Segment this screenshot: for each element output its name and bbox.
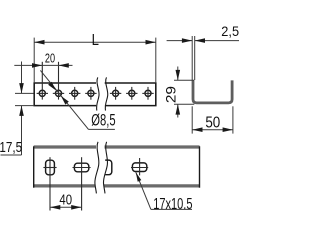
svg-text:20: 20 [45, 52, 55, 66]
svg-text:17x10.5: 17x10.5 [153, 195, 193, 212]
svg-text:50: 50 [205, 114, 220, 131]
svg-text:17,5: 17,5 [0, 139, 22, 156]
svg-text:L: L [92, 32, 99, 49]
svg-text:2,5: 2,5 [221, 23, 239, 39]
svg-text:29: 29 [164, 86, 179, 103]
svg-text:40: 40 [59, 191, 72, 208]
svg-text:Ø8,5: Ø8,5 [91, 111, 115, 130]
